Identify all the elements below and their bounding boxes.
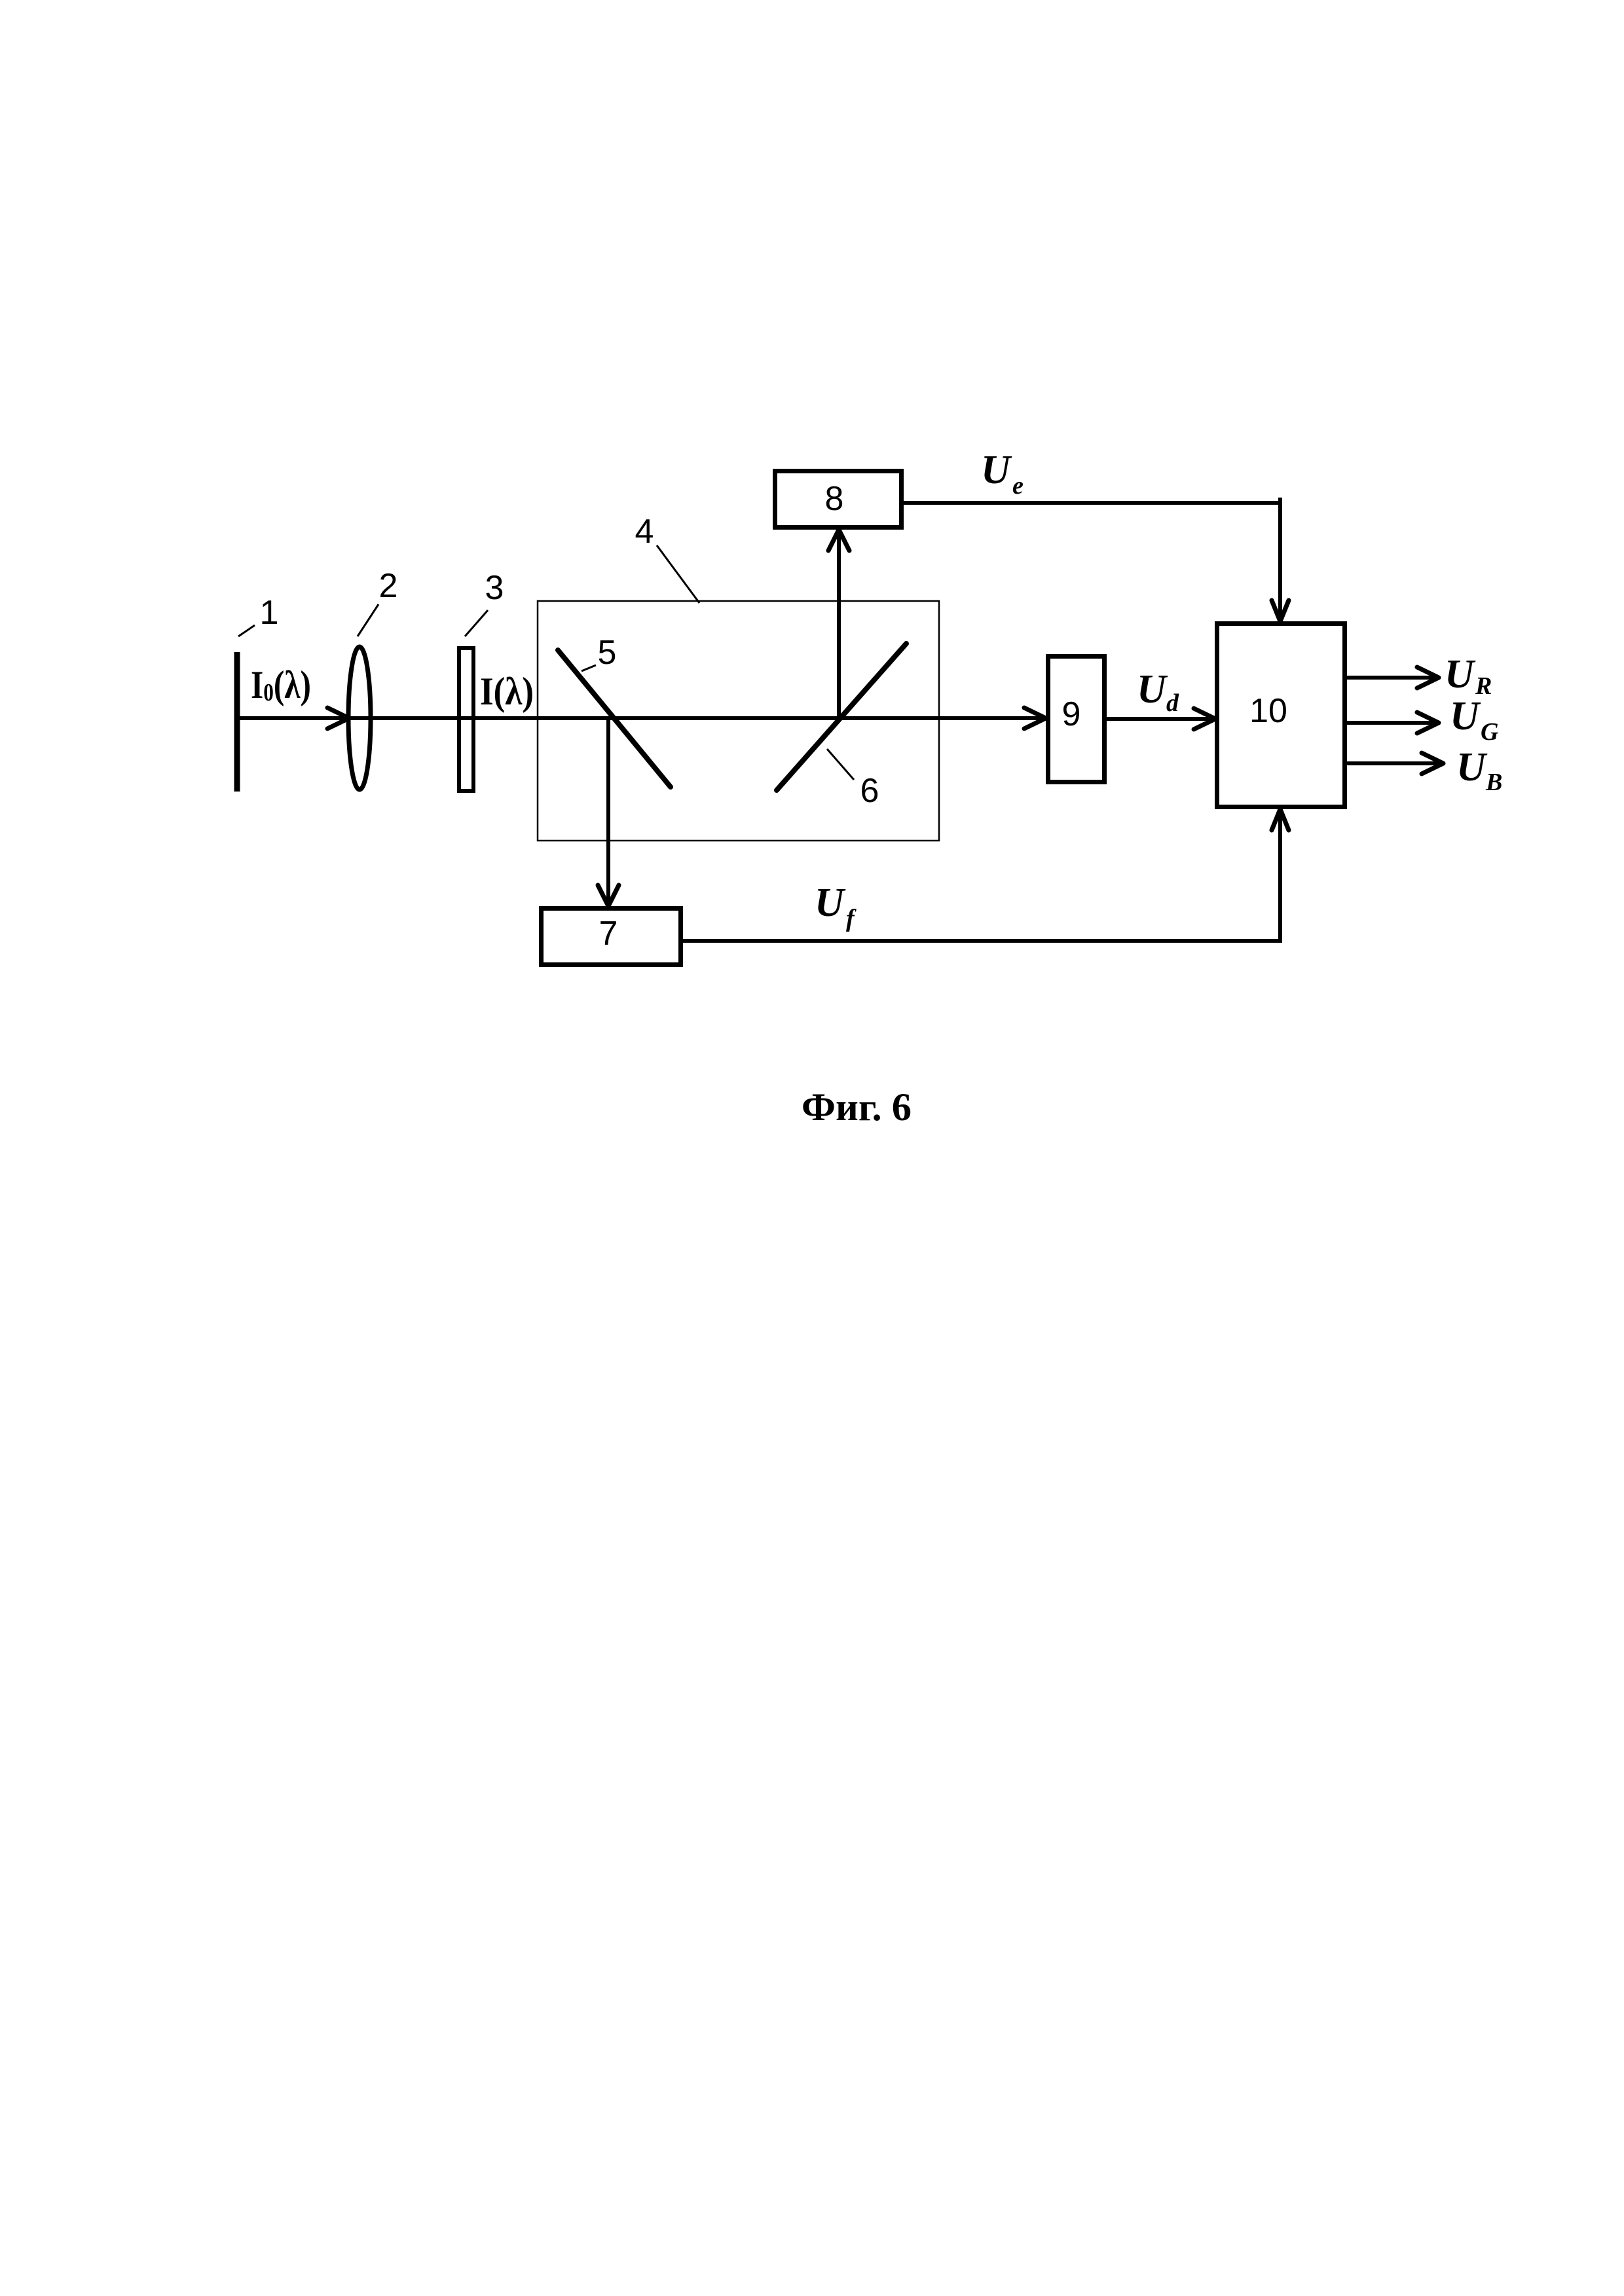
filter 3 (thin rectangle): [459, 648, 473, 791]
svg-text:5: 5: [598, 634, 617, 672]
output wire UB: [1343, 761, 1443, 765]
arrowhead into detector 9: [1024, 708, 1046, 729]
monochromator box 4 (thin rectangle): [538, 601, 939, 841]
svg-text:U: U: [1137, 667, 1168, 712]
arrowhead Ud into box 10: [1194, 708, 1215, 729]
svg-text:7: 7: [599, 915, 618, 953]
svg-text:2: 2: [379, 567, 398, 605]
svg-text:U: U: [1456, 745, 1488, 790]
leader line to label 4: [657, 545, 699, 603]
svg-text:f: f: [846, 905, 857, 932]
leader line to label 6: [827, 749, 854, 780]
svg-text:G: G: [1481, 718, 1499, 746]
junction tick at Ue corner: [1278, 498, 1282, 507]
arrowhead into detector 7: [598, 885, 619, 906]
light source 1 (vertical bar): [234, 652, 240, 792]
svg-text:e: e: [1012, 472, 1024, 500]
wire from mirror 6 up to detector 8: [837, 530, 841, 718]
arrowhead before lens 2: [327, 708, 349, 729]
wire from mirror 5 down to detector 7: [606, 718, 610, 906]
arrowhead into detector 8: [828, 530, 849, 551]
wire Ue from box 8 to box 10: [904, 503, 1280, 621]
leader line to label 2: [358, 604, 378, 636]
arrowhead Uf into box 10 bottom: [1272, 809, 1289, 830]
detector box 9: [1048, 657, 1105, 782]
svg-text:I0(λ): I0(λ): [251, 663, 311, 706]
main beam wire: [237, 716, 1046, 720]
leader line to label 3: [465, 610, 488, 636]
beam splitter mirror 6: [777, 644, 906, 790]
svg-text:d: d: [1166, 689, 1179, 717]
svg-text:3: 3: [485, 569, 504, 607]
leader line to label 5: [581, 665, 596, 671]
svg-text:U: U: [1450, 694, 1481, 738]
svg-text:I(λ): I(λ): [480, 670, 534, 713]
svg-text:4: 4: [635, 513, 654, 551]
arrowhead UR: [1417, 667, 1439, 688]
svg-text:8: 8: [825, 480, 844, 518]
svg-text:U: U: [981, 448, 1012, 492]
wire Uf from box 7 to box 10: [682, 809, 1280, 941]
svg-text:U: U: [1445, 652, 1476, 697]
svg-text:U: U: [815, 881, 846, 925]
detector box 8: [775, 471, 902, 528]
detector box 7: [542, 909, 681, 965]
arrowhead UG: [1417, 712, 1439, 733]
svg-text:1: 1: [260, 594, 279, 632]
leader line to label 1: [238, 625, 255, 636]
svg-text:B: B: [1485, 769, 1502, 796]
output wire UG: [1347, 721, 1439, 725]
arrowhead Ue into box 10 top: [1272, 600, 1289, 621]
wire Ud from box 9 to box 10: [1107, 717, 1215, 721]
beam splitter mirror 5: [558, 650, 671, 787]
svg-text:10: 10: [1249, 692, 1287, 730]
arrowhead UB: [1422, 753, 1443, 774]
svg-text:Фиг. 6: Фиг. 6: [802, 1085, 912, 1129]
svg-text:9: 9: [1062, 695, 1081, 733]
output wire UR: [1347, 676, 1439, 680]
lens 2 (ellipse): [348, 647, 371, 790]
svg-text:6: 6: [860, 772, 879, 810]
processor box 10: [1217, 624, 1345, 807]
